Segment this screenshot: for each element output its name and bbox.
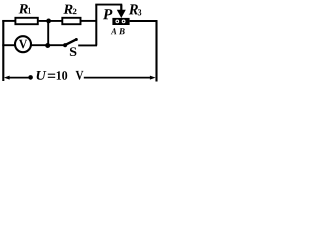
wire: switch to middle vertical: [78, 44, 97, 46]
wire: rheostat B to right vertical: [130, 20, 158, 22]
junction node between R1 and R2: [46, 19, 51, 24]
source annotation: terminal dot: [28, 75, 33, 80]
source annotation: right arrow: [84, 77, 151, 79]
value label U=10 V: [37, 71, 47, 80]
slider P stem: [120, 5, 122, 11]
resistor R1: [15, 18, 37, 24]
label B: [119, 28, 125, 34]
wire: R2 to middle vertical: [81, 20, 97, 22]
wire: right vertical edge: [155, 20, 157, 81]
wire: voltmeter to junction dot: [31, 44, 64, 46]
label R2: [63, 5, 72, 14]
label A: [111, 28, 117, 34]
wire: left edge to voltmeter: [2, 44, 15, 46]
label R1: [19, 4, 28, 13]
wire: left vertical edge: [2, 20, 4, 81]
source annotation: left arrow: [9, 77, 29, 79]
resistor R2: [62, 18, 80, 24]
label P: [103, 9, 113, 19]
rheostat R3 body: [112, 18, 129, 25]
wire: R1 to R2 segment: [39, 20, 63, 22]
slider P arrowhead: [117, 10, 126, 18]
junction node on voltmeter line: [45, 43, 50, 48]
rheostat terminal A socket: [115, 20, 119, 24]
wire: vertical from junction down to voltmeter line: [47, 21, 49, 46]
wire: top-left segment to R1: [2, 20, 15, 22]
wire: top horizontal to slider P: [95, 4, 122, 6]
rheostat terminal B socket: [122, 20, 126, 24]
label S: [70, 47, 77, 56]
switch S contact: [63, 43, 67, 47]
label R3: [129, 4, 138, 14]
switch S lever: [66, 39, 77, 44]
voltmeter V: [15, 36, 31, 52]
wire: middle vertical (slider feed / switch riser): [95, 5, 97, 46]
